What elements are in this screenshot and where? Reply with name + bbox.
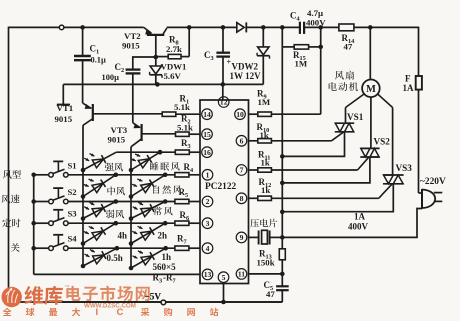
label R8 — [169, 35, 179, 47]
label VS1 — [347, 112, 364, 122]
pin 12 — [218, 97, 229, 108]
terminal bar near VT1 — [57, 104, 70, 106]
wire top rail left section — [9, 26, 144, 28]
label VT2 — [124, 31, 141, 41]
svg-text:5: 5 — [222, 273, 226, 282]
label C3 — [204, 50, 214, 62]
svg-text:400V: 400V — [348, 222, 369, 232]
wire row16 — [116, 151, 200, 153]
resistor R4 — [175, 173, 189, 177]
junction R15 right top — [318, 25, 323, 30]
resistor R1 — [162, 112, 200, 116]
label C3 plus — [227, 58, 232, 67]
wire stub to base bar of VT1 node — [62, 84, 64, 104]
label VDW1 value — [164, 71, 182, 81]
label F — [405, 74, 411, 84]
svg-text:4: 4 — [206, 244, 210, 253]
svg-text:9015: 9015 — [122, 41, 140, 51]
label -5V over watermark — [145, 291, 162, 301]
svg-text:−5V: −5V — [145, 291, 162, 301]
wire pin9 row — [249, 236, 259, 238]
pin 11 — [236, 269, 247, 280]
pin 7 — [236, 165, 247, 176]
resistor R10 — [249, 139, 332, 143]
wire bottom rail over watermark — [62, 301, 282, 303]
wire VS3 gate — [379, 184, 392, 198]
wire common return vertical — [281, 47, 283, 238]
label VT3 type — [108, 135, 126, 145]
label R11 value — [261, 157, 270, 167]
label VT2 type — [122, 41, 140, 51]
junction C4 left node — [280, 25, 285, 30]
junction motor top — [368, 25, 373, 30]
wire pin12 stub — [222, 84, 224, 100]
label C4 value1 — [307, 8, 323, 18]
wire regulated node horizontal — [63, 83, 263, 85]
svg-text:560×5: 560×5 — [153, 262, 177, 272]
wire row2 — [68, 201, 200, 203]
label R2 value — [177, 123, 193, 133]
svg-text:13: 13 — [204, 270, 212, 279]
transistor VT2 — [144, 27, 167, 65]
label normal wind — [153, 207, 172, 216]
wire left vertical supply — [8, 27, 10, 302]
wire C2 top to VDW1 node — [133, 57, 156, 69]
watermark weiku text — [24, 286, 62, 305]
svg-text:1h: 1h — [162, 252, 172, 262]
svg-text:1W 12V: 1W 12V — [230, 71, 262, 81]
LED sleep wind top junction — [158, 150, 163, 155]
svg-text:~220V: ~220V — [420, 177, 446, 187]
label VDW2 value — [230, 71, 262, 81]
resistor R3 — [175, 150, 189, 154]
wire top rail diode to C4 — [247, 26, 301, 28]
resistor R11 — [249, 168, 358, 172]
junction bus row2 — [31, 199, 36, 204]
label 400V — [348, 222, 369, 232]
label strong wind — [105, 163, 123, 172]
svg-text:1k: 1k — [261, 157, 270, 167]
wire row3 — [68, 222, 200, 224]
label R3 — [181, 138, 191, 150]
svg-text:5.1k: 5.1k — [177, 123, 193, 133]
wire S1 feed — [34, 174, 49, 176]
wire VS1 gate — [332, 132, 344, 141]
label 4h — [118, 231, 128, 241]
capacitor C2 — [126, 70, 141, 123]
label R10 value — [260, 130, 269, 140]
svg-text:47: 47 — [344, 42, 353, 52]
svg-text:3: 3 — [206, 219, 210, 228]
svg-text:WWW.DZSC.COM: WWW.DZSC.COM — [84, 303, 136, 310]
svg-text:VS1: VS1 — [347, 112, 364, 122]
junction R15 right — [318, 45, 323, 50]
diode D1 — [237, 22, 247, 32]
label natural wind — [153, 185, 181, 194]
label piezo — [250, 219, 277, 228]
label 1A — [354, 212, 366, 222]
svg-text:9015: 9015 — [55, 114, 73, 124]
label R7 — [177, 234, 187, 246]
label VS2 — [374, 137, 391, 147]
pin 15 — [202, 129, 213, 140]
label R6 — [180, 210, 190, 222]
label R1 — [180, 94, 190, 106]
pin 4 — [202, 243, 213, 254]
resistor R7 — [175, 246, 189, 250]
label R5 — [179, 187, 189, 199]
wire return to plug — [282, 209, 422, 238]
wire row1 — [68, 174, 200, 176]
label 2h — [158, 231, 168, 241]
label sleep wind — [150, 162, 179, 171]
junction bus row3 — [31, 221, 36, 226]
wire VS2 T1 return — [282, 157, 370, 183]
label R3-R7 — [153, 273, 176, 285]
label C1 — [90, 44, 100, 56]
wire pin5 stub — [223, 284, 225, 303]
svg-text:VT1: VT1 — [57, 103, 74, 113]
wire column A — [82, 125, 84, 266]
svg-text:VT2: VT2 — [124, 31, 141, 41]
svg-text:12: 12 — [220, 98, 228, 107]
svg-text:1M: 1M — [258, 97, 271, 107]
wire right vertical to fuse — [418, 27, 420, 193]
LED normal wind top junction — [163, 199, 168, 204]
piezo element — [259, 230, 283, 244]
label R15 — [293, 50, 306, 62]
LED 0.5h — [81, 248, 117, 268]
label VS3 — [396, 163, 413, 173]
junction C3 top — [221, 25, 226, 30]
switch S4 — [49, 234, 78, 251]
resistor R9 — [249, 112, 321, 116]
capacitor C4 — [300, 22, 304, 34]
LED natural wind — [129, 175, 166, 199]
label weak wind — [106, 210, 124, 219]
switch S3 — [49, 209, 77, 226]
label fengsu — [1, 195, 19, 204]
motor M — [362, 80, 380, 98]
resistor R2 — [142, 132, 200, 136]
svg-text:2h: 2h — [158, 231, 168, 241]
label dingshi — [2, 219, 20, 228]
transistor VT3 — [131, 123, 176, 147]
wire S2 feed — [34, 201, 49, 203]
wire fuse to plug jog — [419, 192, 423, 194]
pin 8 — [236, 193, 247, 204]
label R1 value — [174, 102, 190, 112]
label C4 — [290, 11, 301, 23]
wire left key bus — [33, 175, 35, 275]
svg-text:S3: S3 — [68, 209, 77, 219]
capacitor C1 — [74, 27, 91, 103]
junction VS3 return — [280, 210, 285, 215]
resistor R15 — [282, 27, 320, 114]
label guan — [11, 243, 20, 252]
wire S3 feed — [34, 222, 49, 224]
pin 14 — [202, 109, 213, 120]
svg-text:47: 47 — [266, 289, 275, 299]
svg-text:1k: 1k — [261, 185, 270, 195]
svg-text:1A: 1A — [354, 212, 366, 222]
wire motor top lead — [369, 27, 371, 79]
resistor R8 — [156, 27, 189, 58]
LED 1h top junction — [163, 246, 168, 251]
label R8 value — [166, 44, 182, 54]
label C2 value — [102, 73, 120, 82]
svg-text:1A: 1A — [403, 83, 415, 93]
label R12 value — [261, 185, 270, 195]
svg-text:S4: S4 — [68, 234, 78, 244]
svg-text:VS2: VS2 — [374, 137, 391, 147]
pin 5 — [218, 272, 229, 283]
pin 13 — [202, 269, 213, 280]
label VDW1 — [161, 61, 187, 71]
svg-text:1k: 1k — [260, 130, 269, 140]
resistor R14 — [339, 24, 354, 31]
svg-text:100µ: 100µ — [102, 73, 120, 82]
node open circle on top rail — [59, 25, 64, 30]
label fengxing — [3, 170, 21, 179]
label 0.5h — [107, 253, 123, 263]
LED 4h top junction — [114, 221, 119, 226]
resistor R6 — [175, 221, 189, 225]
label R14 value — [344, 42, 353, 52]
junction VDW1 bottom — [155, 82, 160, 87]
label VDW2 — [232, 62, 259, 72]
pin 3 — [202, 218, 213, 229]
capacitor C3 — [216, 27, 230, 84]
label R4 — [184, 162, 195, 174]
zener VDW1 — [150, 66, 162, 84]
junction bus row4 — [31, 246, 36, 251]
label VT1 type — [55, 114, 73, 124]
wire pin11 row — [249, 273, 283, 275]
LED 1h — [129, 248, 166, 270]
label C5 value — [266, 289, 275, 299]
pin 2 — [202, 196, 213, 207]
plug — [422, 189, 442, 209]
svg-text:11: 11 — [238, 270, 245, 279]
junction VDW2 top — [261, 25, 266, 30]
LED 2h — [129, 223, 166, 246]
pin 16 — [202, 147, 213, 158]
label R13 — [259, 249, 272, 261]
switch S1 — [49, 160, 77, 177]
label 1h — [162, 252, 172, 262]
label R11 — [258, 150, 270, 162]
label medium wind — [107, 187, 125, 196]
svg-text:14: 14 — [203, 110, 211, 119]
junction VS2 return — [280, 181, 285, 186]
pin 10 — [235, 109, 246, 120]
label C2 — [115, 62, 125, 74]
triac VS3 — [383, 175, 404, 184]
svg-text:PC2122: PC2122 — [205, 182, 237, 192]
wire row4 — [68, 247, 200, 249]
label PC2122 — [205, 182, 237, 192]
wire top rail C4 to R14 — [304, 26, 339, 28]
LED sleep wind — [129, 152, 160, 172]
svg-text:™: ™ — [65, 285, 70, 291]
label R13 value — [257, 258, 275, 268]
wire motor to VS1 — [346, 94, 365, 124]
label R10 — [257, 122, 270, 134]
wire VS1 T1 return — [282, 132, 344, 157]
LED medium wind top junction — [114, 173, 119, 178]
wire VS3 T1 return — [282, 184, 393, 212]
svg-text:M: M — [366, 84, 376, 95]
svg-text:VS3: VS3 — [396, 163, 413, 173]
zener VDW2 — [257, 27, 269, 84]
junction pin5 bottom — [221, 300, 226, 305]
LED medium wind — [81, 175, 116, 199]
svg-text:S2: S2 — [68, 187, 77, 197]
LED 2h top junction — [163, 221, 168, 226]
svg-text:0.5h: 0.5h — [107, 253, 123, 263]
label 560x5 — [153, 262, 177, 272]
triac VS2 — [360, 148, 379, 157]
junction C1 top — [80, 25, 85, 30]
label R2 — [181, 114, 191, 126]
label C4 value2 — [306, 17, 326, 27]
junction pin11 — [280, 272, 285, 277]
label R9 value — [258, 97, 271, 107]
junction VDW1 base node — [154, 55, 159, 60]
triac VS1 — [335, 123, 354, 132]
wire column B — [130, 147, 132, 268]
wire top rail R14 to right corner — [354, 26, 419, 28]
svg-text:C: C — [117, 307, 124, 316]
svg-text:16: 16 — [203, 148, 211, 157]
junction bus row1 — [31, 173, 36, 178]
label 220V — [420, 177, 446, 187]
capacitor C5 — [276, 274, 289, 302]
svg-text:15: 15 — [203, 130, 211, 139]
label R9 — [257, 89, 267, 101]
svg-text:6: 6 — [240, 136, 244, 145]
watermark site name — [65, 285, 150, 302]
label -5V — [145, 291, 162, 301]
junction pin12 node — [221, 82, 226, 87]
svg-text:1M: 1M — [295, 59, 308, 69]
wire VS2 gate — [358, 157, 369, 170]
junction piezo return — [280, 235, 285, 240]
svg-text:10: 10 — [236, 110, 244, 119]
node open circle bottom — [161, 300, 166, 305]
junction R8 top — [187, 25, 192, 30]
svg-text:5.1k: 5.1k — [174, 102, 190, 112]
label C1 value — [91, 56, 106, 65]
watermark logo circle — [2, 287, 22, 307]
svg-text:2.7k: 2.7k — [166, 44, 182, 54]
label R12 — [259, 177, 272, 189]
label fan — [335, 71, 354, 80]
switch S2 — [49, 187, 77, 204]
fuse F — [416, 76, 422, 90]
pin 1 — [202, 170, 213, 181]
LED weak wind top junction — [114, 199, 119, 204]
wire bottom rail — [9, 301, 283, 303]
wire motor to VS3 — [377, 94, 392, 175]
wire S4 feed — [34, 247, 49, 249]
resistor R5 — [175, 199, 189, 203]
wire top rail VT2 collector to diode — [167, 26, 237, 28]
resistor R12 — [249, 196, 379, 200]
label motor — [329, 82, 358, 91]
svg-text:0.1µ: 0.1µ — [91, 56, 106, 65]
resistor R13 — [279, 237, 285, 274]
svg-text:1: 1 — [206, 170, 210, 179]
pin 6 — [236, 136, 247, 147]
LED natural wind top junction — [163, 173, 168, 178]
wire motor to VS2 — [370, 97, 372, 148]
LED strong wind — [81, 152, 117, 172]
svg-text:S1: S1 — [68, 160, 77, 170]
wire row13 pin13 — [34, 273, 200, 275]
junction VS1 return — [280, 154, 285, 159]
svg-text:7: 7 — [240, 166, 244, 175]
svg-text:VT3: VT3 — [111, 125, 128, 135]
label VT1 — [57, 103, 74, 113]
svg-text:VDW1: VDW1 — [161, 61, 187, 71]
svg-text:9: 9 — [240, 233, 244, 242]
svg-text:150k: 150k — [257, 258, 275, 268]
transistor VT1 — [83, 103, 163, 125]
IC U1 PC2122 body — [200, 100, 249, 284]
label VT3 — [111, 125, 128, 135]
LED 4h — [81, 223, 116, 246]
pin 9 — [236, 232, 247, 243]
svg-text:I: I — [96, 307, 99, 316]
label F value — [403, 83, 415, 93]
label C5 — [264, 280, 274, 292]
node open circle bottom over watermark — [161, 300, 166, 305]
svg-text:5.6V: 5.6V — [164, 71, 182, 81]
svg-text:9015: 9015 — [108, 135, 126, 145]
svg-text:2: 2 — [206, 197, 210, 206]
LED 0.5h top junction — [115, 246, 120, 251]
watermark slogan — [3, 307, 219, 318]
label R14 — [342, 33, 356, 45]
svg-text:4h: 4h — [118, 231, 128, 241]
label R15 value — [295, 59, 308, 69]
LED weak wind — [81, 202, 116, 221]
junction sleep LED top — [158, 150, 163, 155]
LED normal wind — [129, 202, 166, 221]
watermark url — [84, 303, 136, 310]
svg-text:400V: 400V — [306, 17, 326, 27]
svg-text:8: 8 — [240, 194, 244, 203]
